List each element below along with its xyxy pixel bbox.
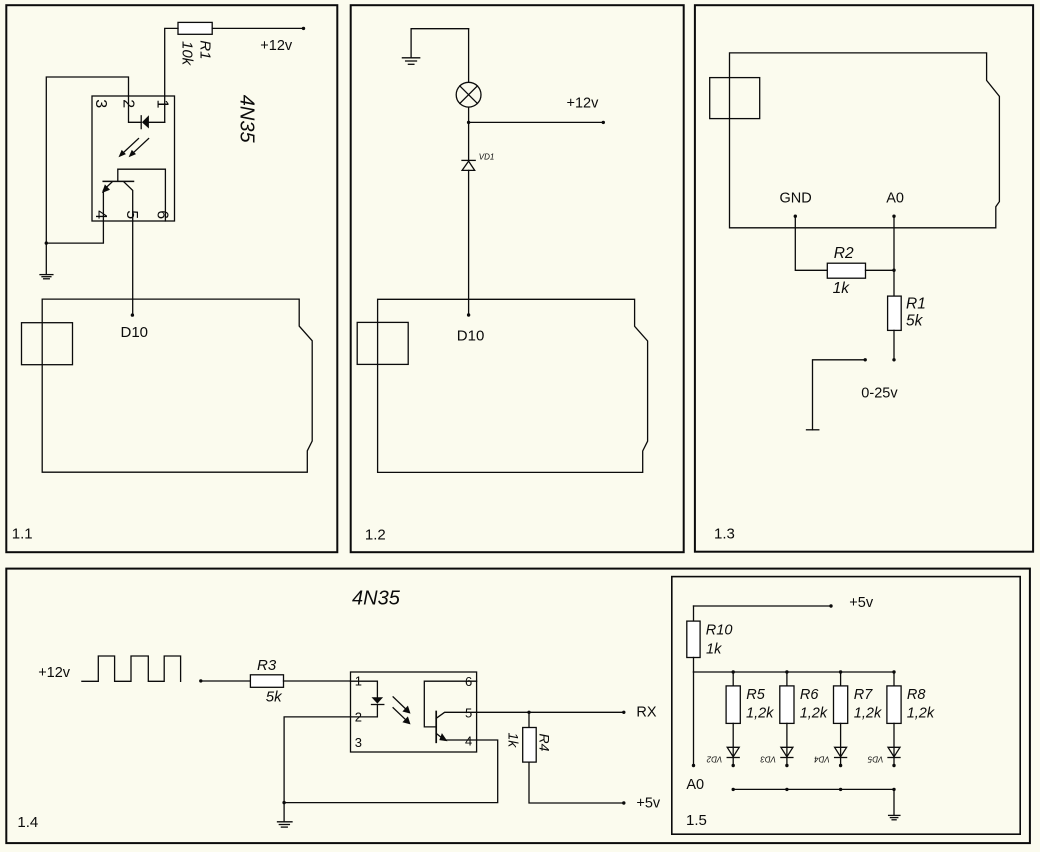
wire pin2 to ground rail bbox=[284, 717, 350, 803]
wire R2 to junction bbox=[866, 269, 895, 271]
diode VD5 bbox=[893, 723, 895, 765]
node RX terminal bbox=[622, 711, 625, 714]
svg-text:1: 1 bbox=[355, 674, 362, 689]
svg-text:1.3: 1.3 bbox=[714, 526, 735, 543]
square wave signal bbox=[82, 656, 181, 681]
svg-text:6: 6 bbox=[153, 210, 170, 219]
light arrow 1 bbox=[124, 139, 139, 153]
wire diode to pin1 bbox=[149, 121, 165, 123]
wire bus to A0 bbox=[693, 672, 695, 766]
svg-text:1,2k: 1,2k bbox=[907, 706, 935, 722]
panel 1.3 frame bbox=[695, 5, 1033, 552]
svg-text:4: 4 bbox=[92, 210, 109, 219]
light arrow 2 bbox=[134, 139, 149, 153]
node input terminal bbox=[199, 679, 202, 682]
resistor R3 bbox=[250, 675, 283, 688]
svg-text:+12v: +12v bbox=[38, 665, 71, 681]
node junction bbox=[892, 269, 895, 272]
wire R4 to +5v bbox=[529, 762, 624, 803]
node junction bbox=[467, 121, 470, 124]
svg-text:+12v: +12v bbox=[260, 38, 293, 54]
node D10 bbox=[131, 313, 134, 316]
resistor R7 bbox=[840, 672, 842, 686]
node +12v terminal bbox=[302, 27, 305, 30]
resistor R8 bbox=[893, 672, 895, 686]
collector to pin5 bbox=[436, 712, 476, 718]
svg-text:R4: R4 bbox=[537, 734, 553, 752]
node A0 pin bbox=[892, 215, 895, 218]
resistor R6 bbox=[786, 672, 788, 686]
svg-text:4: 4 bbox=[465, 734, 472, 749]
wire pin2 bbox=[351, 705, 378, 717]
svg-text:A0: A0 bbox=[886, 190, 904, 206]
node +5v terminal bbox=[622, 801, 625, 804]
svg-text:1,2k: 1,2k bbox=[800, 706, 828, 722]
svg-text:R5: R5 bbox=[746, 687, 765, 703]
panel 1.2 frame bbox=[351, 5, 684, 552]
emitter to pin4 bbox=[436, 733, 476, 740]
emitter arrowhead bbox=[102, 184, 110, 193]
ground bar bbox=[807, 429, 819, 431]
transistor Q2 base bar bbox=[435, 712, 437, 743]
svg-text:GND: GND bbox=[780, 190, 812, 206]
svg-text:R10: R10 bbox=[706, 623, 733, 639]
wire to +12v bbox=[469, 121, 604, 123]
usb connector bbox=[710, 78, 760, 119]
optocoupler U2 box bbox=[351, 672, 477, 752]
svg-text:VD1: VD1 bbox=[479, 153, 495, 162]
lamp HL1 bbox=[456, 82, 481, 107]
svg-text:+12v: +12v bbox=[567, 95, 600, 111]
svg-text:R6: R6 bbox=[800, 687, 819, 703]
svg-text:+5v: +5v bbox=[849, 595, 874, 611]
svg-text:1,2k: 1,2k bbox=[854, 706, 882, 722]
svg-text:D10: D10 bbox=[457, 327, 485, 344]
svg-text:5k: 5k bbox=[266, 689, 283, 706]
LED cathode bar bbox=[140, 116, 142, 129]
svg-text:VD2: VD2 bbox=[706, 755, 722, 764]
emitter arrowhead bbox=[439, 733, 447, 741]
svg-text:1k: 1k bbox=[706, 642, 722, 658]
wire bbox=[165, 28, 178, 122]
svg-text:VD5: VD5 bbox=[867, 755, 883, 764]
transistor emitter bbox=[103, 182, 112, 221]
node +5v terminal bbox=[829, 604, 832, 607]
wire bbox=[212, 27, 303, 29]
wire ground rail to pin4 bbox=[284, 740, 498, 803]
node bus dots bbox=[732, 670, 735, 673]
wire +5v rail bbox=[694, 605, 832, 607]
panel 1.5 frame bbox=[672, 577, 1020, 835]
svg-text:R7: R7 bbox=[854, 687, 873, 703]
svg-text:R2: R2 bbox=[834, 245, 854, 262]
svg-text:R1: R1 bbox=[906, 296, 926, 313]
svg-text:A0: A0 bbox=[686, 777, 704, 793]
svg-text:R8: R8 bbox=[907, 687, 926, 703]
op-to coupler U1 box bbox=[92, 96, 175, 221]
wire to lamp bbox=[468, 29, 470, 83]
svg-text:2: 2 bbox=[355, 710, 362, 725]
svg-text:5k: 5k bbox=[906, 313, 924, 330]
node GND pin bbox=[794, 215, 797, 218]
wire to R10 bbox=[693, 606, 695, 621]
svg-text:D10: D10 bbox=[121, 324, 149, 341]
node ground junction bbox=[282, 801, 285, 804]
ground bbox=[893, 789, 895, 815]
transistor Q1 base bar bbox=[103, 180, 133, 182]
resistor R10 bbox=[687, 621, 700, 657]
diode VD2 bbox=[732, 723, 734, 765]
wire to R3 bbox=[201, 680, 251, 682]
light arrow 1 bbox=[393, 697, 407, 710]
svg-text:1.1: 1.1 bbox=[12, 525, 33, 542]
wire lamp to node bbox=[468, 107, 470, 122]
wire bottom bus bbox=[733, 788, 894, 790]
diode VD4 bbox=[840, 723, 842, 765]
svg-text:0-25v: 0-25v bbox=[861, 385, 898, 401]
wire pin2 bbox=[129, 96, 142, 122]
arduino board 1.2 bbox=[378, 299, 648, 472]
wire R10 to bus bbox=[693, 658, 695, 673]
svg-text:5: 5 bbox=[465, 706, 472, 721]
wire left rail bbox=[46, 77, 128, 243]
svg-text:1.5: 1.5 bbox=[686, 812, 707, 829]
wire junction to R4 bbox=[528, 712, 530, 727]
usb connector bbox=[22, 323, 73, 365]
base lead to pin6 bbox=[424, 681, 476, 727]
diode VD1 cathode bar bbox=[462, 159, 475, 161]
svg-text:4N35: 4N35 bbox=[352, 588, 401, 610]
LED triangle bbox=[142, 115, 149, 128]
svg-text:R1: R1 bbox=[197, 40, 214, 59]
ground bbox=[45, 243, 47, 274]
wire R3 to U2 bbox=[284, 680, 351, 682]
resistor R1 bbox=[888, 296, 902, 330]
svg-text:1.2: 1.2 bbox=[365, 526, 386, 543]
svg-text:VD4: VD4 bbox=[814, 755, 830, 764]
wire pin5 to D10 bbox=[132, 221, 134, 315]
panel 1.1 frame bbox=[6, 5, 337, 552]
svg-text:+5v: +5v bbox=[636, 796, 661, 812]
svg-text:10k: 10k bbox=[179, 41, 196, 67]
svg-text:3: 3 bbox=[92, 99, 109, 108]
arduino board 1.1 bbox=[42, 299, 312, 472]
node D10 bbox=[467, 313, 470, 316]
wire GND to R2 bbox=[795, 216, 827, 270]
wire pin4 down bbox=[46, 221, 103, 243]
svg-text:1k: 1k bbox=[833, 280, 851, 297]
light arrow 2 bbox=[393, 708, 407, 721]
node probe terminal bbox=[864, 358, 867, 361]
svg-text:1.4: 1.4 bbox=[17, 814, 38, 831]
LED triangle bbox=[372, 697, 384, 703]
svg-text:VD3: VD3 bbox=[760, 755, 776, 764]
svg-text:1: 1 bbox=[153, 100, 170, 109]
resistor R2 bbox=[827, 263, 865, 278]
svg-text:3: 3 bbox=[355, 735, 362, 750]
svg-text:RX: RX bbox=[636, 705, 656, 721]
wire A0 down bbox=[893, 216, 895, 296]
node A0 terminal bbox=[692, 764, 695, 767]
diode VD3 bbox=[786, 723, 788, 765]
ground bbox=[283, 803, 285, 822]
arduino board 1.3 bbox=[730, 53, 1000, 228]
wire pin1 bbox=[351, 681, 378, 697]
node +12v terminal bbox=[602, 121, 605, 124]
svg-text:5: 5 bbox=[123, 210, 140, 219]
wire node to diode bbox=[468, 122, 470, 160]
node junction bbox=[45, 241, 48, 244]
wire R1 to terminal bbox=[893, 330, 895, 359]
wire diode to D10 bbox=[468, 170, 470, 315]
diode VD1 triangle bbox=[462, 161, 475, 170]
node junction bbox=[527, 711, 530, 714]
svg-text:R3: R3 bbox=[257, 657, 277, 674]
ground bbox=[411, 29, 469, 58]
LED cathode bar bbox=[372, 704, 384, 706]
transistor collector bbox=[124, 182, 133, 221]
wire pin5 to RX bbox=[477, 711, 624, 713]
wire probe to ground bbox=[813, 360, 866, 430]
resistor R5 bbox=[732, 672, 734, 686]
svg-text:4N35: 4N35 bbox=[236, 95, 258, 144]
usb connector bbox=[357, 322, 408, 364]
panel 1.4 frame bbox=[6, 569, 1030, 844]
node bottom bus dots bbox=[732, 788, 735, 791]
wire top bus bbox=[694, 671, 895, 673]
node terminal bbox=[892, 358, 895, 361]
resistor R4 bbox=[523, 728, 537, 763]
resistor R1 bbox=[178, 22, 212, 34]
svg-text:1,2k: 1,2k bbox=[746, 706, 774, 722]
svg-text:1k: 1k bbox=[506, 733, 522, 749]
transistor base lead to pin 6 bbox=[118, 169, 166, 221]
